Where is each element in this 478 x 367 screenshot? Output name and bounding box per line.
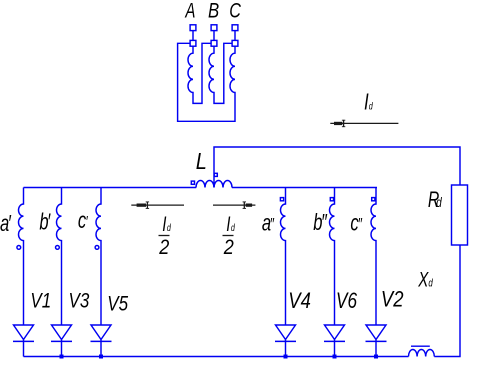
primary winding B: [209, 47, 214, 99]
diode V1: [13, 325, 34, 357]
svg-text:V6: V6: [336, 289, 357, 314]
junction dot a'': [284, 355, 288, 359]
current arrow Id top: [330, 120, 398, 127]
svg-text:A: A: [185, 0, 196, 22]
polarity circle b': [56, 246, 60, 250]
secondary winding a'': [281, 188, 286, 326]
diode V6: [324, 325, 345, 357]
diode V2: [366, 325, 387, 357]
junction dot c'': [374, 355, 378, 359]
wire delta B-bottom to C-top: [214, 43, 232, 103]
diode V5: [91, 325, 112, 357]
wire center tap up and to resistor: [214, 147, 460, 188]
wire delta A-bottom to B-top: [193, 43, 211, 103]
current arrow Id/2 left: [131, 202, 184, 209]
junction dot b': [60, 355, 64, 359]
wire terminal C to node C: [234, 31, 236, 40]
junction dot b'': [333, 355, 337, 359]
diode V4: [275, 325, 296, 357]
svg-text:2: 2: [223, 236, 234, 260]
polarity circle c': [95, 246, 99, 250]
diode V3: [51, 325, 72, 357]
svg-text:L: L: [196, 147, 207, 174]
terminal square L left: [191, 181, 194, 184]
wire terminal A to node A: [192, 31, 194, 40]
secondary winding b'': [330, 188, 335, 326]
svg-text:B: B: [208, 0, 219, 23]
polarity circle a': [17, 246, 21, 250]
svg-text:c″: c″: [350, 211, 362, 236]
terminal square phase A: [190, 25, 196, 31]
svg-text:C: C: [229, 0, 241, 23]
node square C: [232, 40, 238, 46]
resistor Rd: [452, 185, 468, 245]
svg-text:c′: c′: [78, 209, 89, 234]
junction dot c': [99, 355, 103, 359]
secondary winding c'': [371, 188, 376, 326]
svg-text:a″: a″: [262, 211, 275, 236]
terminal square L center tap: [214, 173, 217, 176]
terminal square phase C: [232, 25, 238, 31]
svg-text:b″: b″: [313, 210, 327, 235]
polarity square b'': [330, 198, 333, 201]
wire terminal B to node B: [213, 31, 215, 40]
polarity square a'': [280, 198, 283, 201]
secondary winding b': [57, 188, 62, 326]
svg-text:a′: a′: [0, 211, 12, 236]
svg-text:V5: V5: [107, 292, 128, 316]
svg-text:2: 2: [158, 236, 169, 260]
svg-text:V2: V2: [381, 288, 404, 312]
current arrow Id/2 right: [213, 202, 255, 209]
svg-text:V1: V1: [30, 289, 51, 313]
svg-text:b′: b′: [39, 210, 51, 235]
smoothing reactor Xd winding: [409, 350, 435, 357]
primary winding A: [188, 47, 193, 99]
wire secondary bus: [24, 187, 197, 189]
node square A: [190, 40, 196, 46]
terminal square phase B: [211, 25, 217, 31]
svg-text:V3: V3: [69, 289, 90, 313]
wire delta C-bottom to A-top: [178, 43, 235, 121]
secondary winding c': [96, 188, 101, 326]
core bar Xd: [411, 345, 430, 347]
wire Xd to resistor: [434, 245, 460, 357]
svg-text:V4: V4: [288, 290, 311, 314]
secondary winding a': [19, 188, 24, 326]
interphase reactor L winding: [196, 181, 232, 188]
wire cathode bus bottom: [24, 356, 409, 358]
polarity square c'': [372, 198, 375, 201]
node square B: [211, 40, 217, 46]
primary winding C: [230, 47, 235, 99]
